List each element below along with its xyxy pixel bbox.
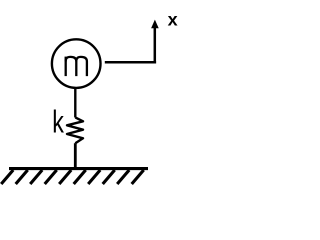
- mass circle m: [52, 39, 101, 88]
- wire: spring bottom to ground: [74, 143, 77, 168]
- ground line: [9, 167, 148, 170]
- wire: circle bottom to spring top: [74, 88, 76, 118]
- mass label m: [66, 57, 87, 77]
- spring k (zigzag): [67, 117, 83, 143]
- ground hatching: [1, 170, 144, 184]
- wire: horizontal from mass to axis: [105, 61, 156, 64]
- arrowhead of x axis: [151, 20, 159, 29]
- svg-text:k: k: [52, 104, 64, 139]
- svg-text:x: x: [168, 10, 178, 29]
- wire: vertical axis shaft: [154, 27, 157, 64]
